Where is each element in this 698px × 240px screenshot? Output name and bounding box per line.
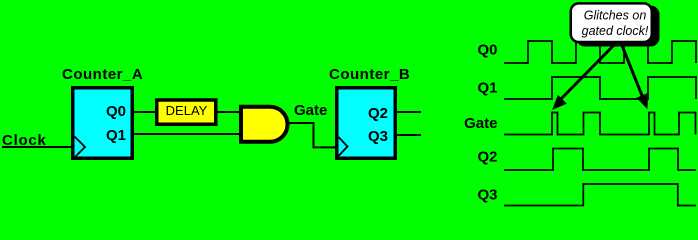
svg-text:Q1: Q1 (477, 80, 497, 97)
svg-text:DELAY: DELAY (166, 103, 208, 118)
svg-text:Q1: Q1 (106, 127, 126, 144)
wire Clock input (2, 146, 72, 148)
wire Gate: AND output to Counter_B clock (290, 123, 337, 147)
delay element DELAY body (157, 100, 216, 124)
callout bubble: Glitches on gated clock! (571, 3, 652, 42)
clock input pin triangle (Counter_A) (75, 137, 86, 158)
svg-text:gated clock!: gated clock! (582, 24, 649, 38)
wire DELAY to AND gate (217, 111, 242, 113)
counter Counter_B body (337, 88, 396, 159)
arrow to glitch 1 (553, 43, 616, 109)
counter Counter_A body (73, 88, 133, 159)
wire Q1 to AND gate (134, 133, 242, 135)
waveform Gate (with glitches) (504, 113, 696, 135)
wire Q2 output (397, 111, 421, 113)
svg-text:Gate: Gate (294, 102, 327, 119)
arrow to glitch 2 (621, 43, 648, 108)
AND gate (241, 107, 288, 142)
svg-text:Q2: Q2 (368, 105, 388, 122)
clock input pin triangle (Counter_B) (339, 137, 348, 156)
wire Q0 to DELAY (134, 111, 156, 113)
svg-text:Q3: Q3 (477, 187, 497, 204)
svg-text:Q0: Q0 (106, 103, 126, 120)
svg-text:Gate: Gate (464, 115, 497, 132)
svg-text:Glitches on: Glitches on (584, 9, 647, 23)
waveform Q0 (504, 41, 696, 63)
callout shadow (576, 6, 660, 47)
wire Q3 output (397, 134, 421, 136)
svg-text:Q0: Q0 (477, 42, 497, 59)
waveform Q2 (504, 149, 696, 171)
svg-text:Q3: Q3 (368, 128, 388, 145)
waveform Q1 (504, 77, 696, 99)
svg-text:Counter_B: Counter_B (329, 66, 410, 83)
waveform Q3 (504, 184, 696, 206)
svg-text:Q2: Q2 (477, 149, 497, 166)
svg-text:Counter_A: Counter_A (62, 66, 143, 83)
